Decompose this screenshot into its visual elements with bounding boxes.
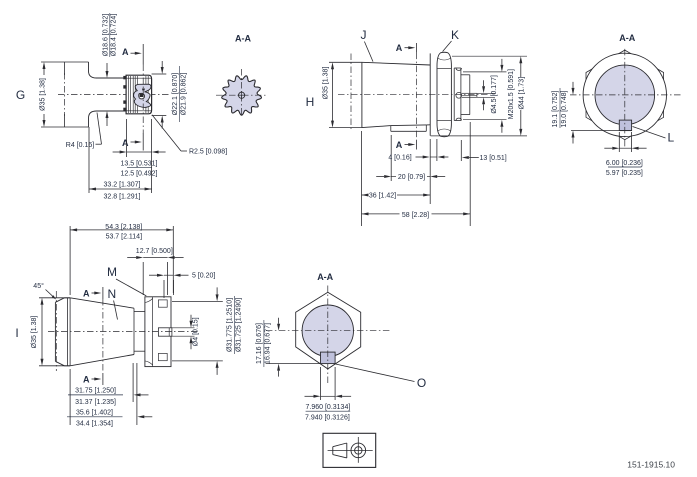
third angle projection symbol [323,433,376,467]
svg-text:N: N [107,287,116,301]
svg-text:Ø4 [0.15]: Ø4 [0.15] [192,317,199,346]
svg-text:Ø31.725 [1.2490]: Ø31.725 [1.2490] [235,298,242,352]
section line A view H [396,43,417,150]
svg-text:M: M [107,265,117,279]
label 45deg [33,282,56,300]
svg-text:M20x1.5 [0.591]: M20x1.5 [0.591] [508,69,515,119]
svg-text:13 [0.51]: 13 [0.51] [480,155,507,162]
extension lines I bottom [70,363,137,425]
inner shaft circle [595,65,655,125]
dim 54.3 [70,224,173,295]
sprocket crosshair [216,69,267,115]
dim dia35 G [40,62,47,127]
label L [633,127,675,145]
svg-text:6.00 [0.236]: 6.00 [0.236] [606,160,643,167]
dim 7.960 [305,367,352,421]
svg-text:31.37 [1.235]: 31.37 [1.235] [75,399,116,406]
keyway O [321,352,336,364]
label O [336,364,427,390]
svg-text:5.97 [0.235]: 5.97 [0.235] [606,170,643,177]
title A-A circle [619,33,635,43]
svg-text:A: A [396,43,403,53]
dim dia22.1 [152,61,188,129]
dim 33.2 [89,127,152,201]
svg-text:L: L [667,131,674,145]
label R2.5 [152,115,227,156]
extension lines H dims [362,122,471,226]
dim 13.5 [113,119,166,178]
svg-text:O: O [417,376,426,390]
svg-text:R4 [0.16]: R4 [0.16] [66,142,94,149]
dim dia4.5 [477,75,498,114]
cotter pin H [462,93,477,97]
dim 36 [362,190,431,200]
dim 58 [362,210,471,219]
svg-text:Ø44 [1.73]: Ø44 [1.73] [519,77,526,110]
svg-text:7.960 [0.3134]: 7.960 [0.3134] [306,404,351,411]
dim 19.1 [552,82,631,144]
svg-text:Ø35 [1.38]: Ø35 [1.38] [40,78,47,111]
centerline G [58,94,170,96]
shaft circle hex view [302,305,353,356]
dim dia35 I [31,298,70,366]
svg-text:16.94 [0.677]: 16.94 [0.677] [265,323,272,364]
svg-text:Ø18.4 [0.724]: Ø18.4 [0.724] [110,14,117,56]
label R4 [66,113,102,150]
svg-text:19.0 [0.748]: 19.0 [0.748] [561,90,568,127]
dim 6.00 [604,132,646,177]
dim dia18.6 [102,13,117,126]
drawing number [627,460,675,470]
crosshair circle view [570,49,683,148]
svg-text:33.2 [1.307]: 33.2 [1.307] [104,182,141,189]
label K [443,28,459,52]
taper shaft H outline [362,62,430,131]
label M [107,265,146,296]
dim 20 [376,174,445,181]
svg-text:58 [2.28]: 58 [2.28] [402,212,429,219]
svg-text:J: J [361,28,367,42]
svg-text:35.6 [1.402]: 35.6 [1.402] [76,409,113,416]
dim dia4 [172,315,199,349]
keyway L [619,120,631,131]
castle nut H [437,52,451,137]
washer plate H [454,68,461,121]
view G label [16,88,25,102]
crosshair hex view [266,286,391,386]
section line A view I [83,287,103,385]
dim 12.7 [127,248,183,295]
svg-text:34.4 [1.354]: 34.4 [1.354] [76,421,113,428]
svg-text:36 [1.42]: 36 [1.42] [369,192,396,199]
svg-text:Ø4.5 [0.177]: Ø4.5 [0.177] [491,75,498,114]
spline tabs [123,76,126,111]
svg-text:Ø35 [1.38]: Ø35 [1.38] [323,67,330,100]
dim 5 [149,273,215,298]
taper shaft I outline [55,298,144,366]
svg-text:R2.5 [0.098]: R2.5 [0.098] [189,149,227,156]
shaft G cylinder outline [41,62,126,127]
gauge line I [55,291,57,371]
label J [361,28,374,62]
section line A view G [122,44,143,151]
svg-text:A: A [83,289,90,299]
svg-text:45°: 45° [33,282,44,290]
svg-text:A: A [83,375,90,385]
svg-text:Ø21.9 [0.862]: Ø21.9 [0.862] [180,73,187,115]
castle nut I [145,297,171,367]
hex nut outline [296,292,361,369]
svg-text:I: I [15,326,18,340]
dim dia31.775 [172,287,242,375]
svg-text:K: K [451,28,459,42]
svg-text:54.3 [2.138]: 54.3 [2.138] [105,224,142,231]
svg-text:Ø22.1 [0.870]: Ø22.1 [0.870] [172,73,179,115]
dim 35.6 [67,409,152,427]
svg-text:20 [0.79]: 20 [0.79] [398,174,425,181]
svg-text:4 [0.16]: 4 [0.16] [388,155,411,162]
label N [107,287,117,320]
stud end H [461,75,470,115]
svg-text:Ø31.775 [1.2510]: Ø31.775 [1.2510] [227,298,234,352]
gauge line H [350,54,352,132]
title A-A hex [317,272,333,282]
mounting face H [429,53,431,135]
cotter pin I [158,328,172,336]
dim 13 [462,155,507,162]
svg-text:151-1915.10: 151-1915.10 [627,460,675,470]
dim dia35 H [323,62,362,127]
svg-text:32.8 [1.291]: 32.8 [1.291] [104,194,141,201]
svg-text:A: A [122,47,129,57]
dim 17.16 [256,318,320,377]
svg-text:12.7 [0.500]: 12.7 [0.500] [136,248,173,255]
svg-text:53.7 [2.114]: 53.7 [2.114] [106,234,143,241]
title A-A sprocket [235,34,251,44]
svg-text:A-A: A-A [317,272,333,282]
dim 4 [388,155,448,162]
view H label [306,95,315,109]
tooth profile highlight [134,84,151,107]
outer circle [583,53,666,136]
svg-text:Ø18.6 [0.732]: Ø18.6 [0.732] [102,14,109,56]
svg-text:A-A: A-A [619,33,635,43]
svg-text:31.75 [1.250]: 31.75 [1.250] [75,388,116,395]
sprocket section gear [222,76,262,115]
svg-text:A-A: A-A [235,34,251,44]
svg-text:7.940 [0.3126]: 7.940 [0.3126] [305,414,350,421]
view I label [15,326,18,340]
svg-text:5 [0.20]: 5 [0.20] [192,273,215,280]
svg-text:17.16 [0.676]: 17.16 [0.676] [256,323,263,364]
dim M20 [463,59,515,133]
svg-text:H: H [306,95,315,109]
dim dia44 [431,56,528,136]
svg-text:A: A [396,140,403,150]
hex outline circle view [586,50,664,140]
svg-text:A: A [122,138,129,148]
svg-text:Ø35 [1.38]: Ø35 [1.38] [31,316,38,349]
centerline H [338,94,488,96]
dim 31.75 [68,388,149,406]
svg-text:19.1 [0.752]: 19.1 [0.752] [552,90,559,127]
sprocket side view block [126,75,152,114]
svg-text:G: G [16,88,25,102]
centerline I [48,331,200,333]
